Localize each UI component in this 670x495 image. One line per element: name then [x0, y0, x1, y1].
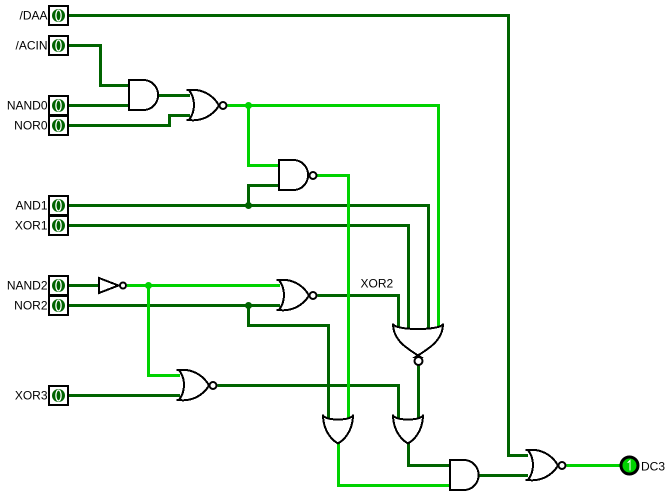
svg-text:/ACIN: /ACIN	[15, 39, 47, 53]
input pin NOR2	[49, 296, 68, 315]
svg-text:NAND2: NAND2	[7, 279, 48, 293]
wire U3 NAND output down to U7 input	[317, 176, 349, 419]
NOR gate U6 south facing	[393, 324, 443, 366]
junction on NOR2 net	[245, 302, 252, 309]
wire AND1 net across and down to U6 input	[69, 206, 429, 330]
wire U10 NOR output to U8 input	[218, 386, 399, 419]
input pin XOR3	[49, 386, 68, 405]
svg-text:NOR2: NOR2	[14, 299, 48, 313]
svg-text:XOR3: XOR3	[15, 389, 48, 403]
junction on U2 output net	[245, 102, 252, 109]
OR gate U7 south facing	[323, 415, 353, 444]
junction on U4 output net	[145, 282, 152, 289]
output pin DC3	[621, 457, 638, 474]
NOR gate U11	[526, 450, 566, 481]
svg-text:NAND0: NAND0	[7, 99, 48, 113]
svg-text:DC3: DC3	[641, 460, 665, 474]
NAND gate U3	[279, 160, 317, 190]
wire NAND0 net to U1 input	[69, 104, 131, 107]
wire NAND2 net to U4 inverter input	[69, 284, 99, 287]
svg-text:XOR1: XOR1	[15, 219, 48, 233]
wire U2 output branch to U3 NAND input	[249, 106, 281, 166]
input pin NOR0	[49, 116, 68, 135]
svg-text:AND1: AND1	[15, 199, 47, 213]
wire U4 output branch down to U10 input	[149, 286, 181, 376]
wire NOR2 branch down to U7 input	[249, 306, 329, 419]
wire U7 OR output to U9 AND input	[339, 442, 451, 486]
wire U8 OR output to U9 AND input	[409, 442, 451, 466]
wire U9 AND output to U11 NOR input	[477, 474, 528, 477]
AND gate U9	[450, 460, 479, 490]
input pin NAND2	[49, 276, 68, 295]
wire NOR0 net to U2 input	[69, 116, 191, 126]
OR gate U8 south facing	[393, 415, 423, 444]
wire U2 NOR output high across and down to U6 input	[228, 106, 439, 330]
svg-text:NOR0: NOR0	[14, 119, 48, 133]
wire U4 inverter output to U5 input	[127, 284, 280, 287]
wire XOR3 net to U10 input	[69, 394, 181, 397]
NOR gate U5	[277, 280, 317, 311]
wire U11 NOR output to pin DC3	[567, 464, 621, 467]
input pin XOR1	[49, 216, 68, 235]
svg-text:/DAA: /DAA	[19, 9, 47, 23]
wire /ACIN net to U1 input	[69, 46, 131, 86]
wire XOR1 net across and down to U6 input	[69, 226, 409, 330]
wire /DAA net to U11 input	[69, 16, 529, 456]
wire U5 NOR output XOR2 to U6 input	[318, 296, 399, 330]
input pin /ACIN	[49, 36, 68, 55]
NOR gate U2	[187, 90, 227, 121]
input pin AND1	[49, 196, 68, 215]
junction on AND1 net	[245, 202, 252, 209]
input pin /DAA	[49, 6, 68, 25]
AND gate U1	[129, 80, 158, 110]
input pin NAND0	[49, 96, 68, 115]
wire U6 NOR output down to U8 input	[417, 366, 420, 419]
wire NOR2 net to U5 input	[69, 304, 281, 307]
inverter U4	[99, 278, 126, 293]
NOR gate U10	[177, 370, 217, 401]
wire AND1 branch to U3 NAND input	[249, 186, 281, 206]
wire U1 AND output to U2 input	[157, 94, 191, 97]
svg-text:XOR2: XOR2	[361, 277, 394, 291]
